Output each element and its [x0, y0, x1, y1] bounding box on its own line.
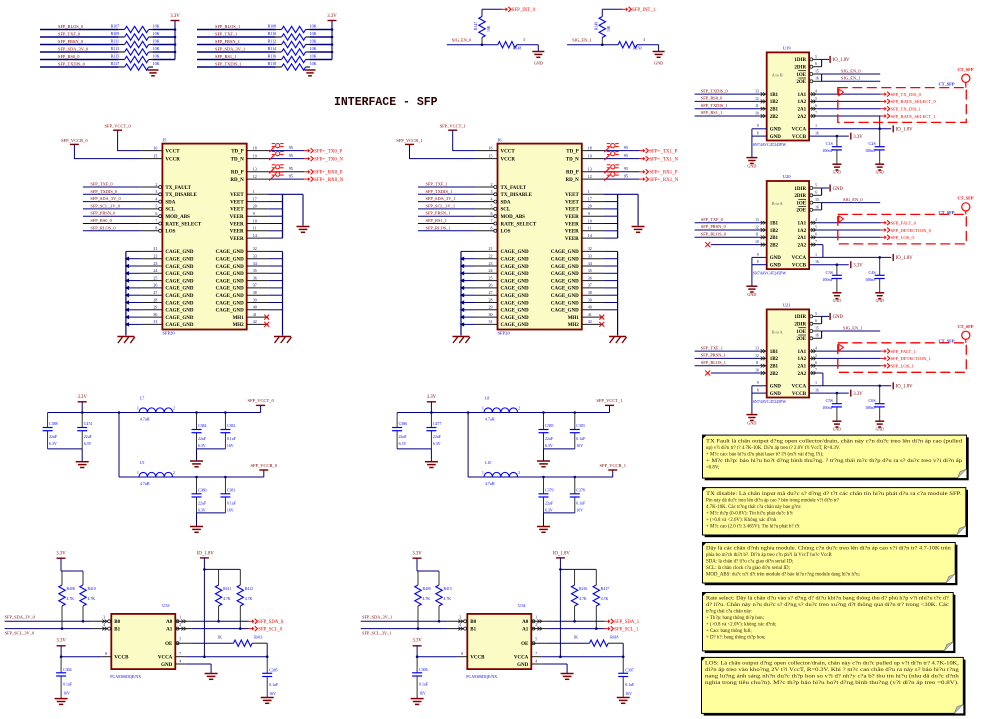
svg-text:6: 6	[815, 104, 817, 108]
svg-text:5: 5	[815, 225, 817, 229]
svg-text:VCCR: VCCR	[501, 157, 516, 162]
svg-text:CAGE_GND: CAGE_GND	[165, 258, 193, 263]
svg-text:1: 1	[137, 407, 139, 411]
svg-text:36: 36	[588, 275, 592, 280]
svg-text:95: 95	[624, 145, 628, 150]
svg-text:CAGE_GND: CAGE_GND	[551, 272, 579, 277]
svg-text:Pin này dã du?c treo lên di?n: Pin này dã du?c treo lên di?n áp cao ? b…	[706, 498, 839, 503]
svg-text:TX_FAULT: TX_FAULT	[165, 186, 191, 191]
svg-text:13: 13	[755, 218, 759, 222]
svg-text:12: 12	[588, 174, 592, 179]
svg-text:10: 10	[755, 111, 759, 115]
svg-text:4.7K-10K. Các tr?ng thái c?a c: 4.7K-10K. Các tr?ng thái c?a chân này ba…	[706, 505, 801, 510]
svg-text:3: 3	[103, 616, 105, 620]
svg-text:29: 29	[153, 305, 157, 310]
svg-text:4.7uH: 4.7uH	[485, 418, 495, 422]
svg-text:5: 5	[179, 638, 181, 642]
svg-text:6: 6	[815, 233, 817, 237]
svg-text:1K: 1K	[573, 636, 578, 640]
svg-text:=0.8V;: =0.8V;	[706, 465, 719, 470]
svg-text:10K: 10K	[153, 39, 160, 44]
svg-text:4: 4	[491, 196, 493, 201]
svg-text:RATE_SELECT: RATE_SELECT	[501, 222, 537, 227]
svg-text:1DIR: 1DIR	[794, 315, 806, 320]
svg-text:TX_FAULT: TX_FAULT	[501, 186, 527, 191]
svg-text:4.7uH: 4.7uH	[140, 482, 150, 486]
svg-text:2: 2	[173, 407, 175, 411]
svg-text:4: 4	[815, 347, 817, 351]
svg-text:VCCA: VCCA	[792, 128, 807, 133]
svg-text:CAGE_GND: CAGE_GND	[165, 294, 193, 299]
svg-text:SDA: SDA	[165, 200, 175, 205]
svg-text:C380: C380	[198, 488, 206, 492]
svg-text:25: 25	[153, 275, 157, 280]
svg-text:TD_P: TD_P	[566, 149, 579, 154]
svg-text:1B2: 1B2	[770, 229, 779, 234]
svg-text:CT_SFP: CT_SFP	[938, 210, 954, 215]
svg-text:SFP_SCL_3V_0: SFP_SCL_3V_0	[90, 203, 120, 208]
svg-text:MH1: MH1	[233, 316, 245, 321]
svg-text:4: 4	[155, 196, 157, 201]
svg-text:SFP_TXF_1: SFP_TXF_1	[426, 182, 448, 187]
svg-text:3: 3	[643, 38, 645, 42]
svg-text:2B2: 2B2	[770, 115, 779, 120]
svg-text:2DIR: 2DIR	[794, 194, 806, 199]
svg-text:SFP_RS0_0: SFP_RS0_0	[701, 96, 723, 101]
svg-text:6.3V: 6.3V	[433, 442, 441, 446]
svg-text:SFP20: SFP20	[498, 331, 511, 336]
svg-text:R112: R112	[268, 39, 277, 44]
svg-text:26: 26	[153, 283, 157, 288]
svg-text:0.1uF: 0.1uF	[625, 683, 635, 687]
svg-text:0.1uF: 0.1uF	[227, 501, 237, 505]
svg-text:1: 1	[179, 616, 181, 620]
svg-text:CAGE_GND: CAGE_GND	[501, 272, 529, 277]
svg-text:SFP_SDA_3V_0: SFP_SDA_3V_0	[5, 615, 36, 620]
svg-text:A1: A1	[166, 627, 173, 632]
svg-text:6.3V: 6.3V	[198, 508, 206, 512]
svg-text:SFP_SDA_3V_1: SFP_SDA_3V_1	[362, 615, 392, 620]
svg-text:CAGE_GND: CAGE_GND	[501, 250, 529, 255]
svg-text:33: 33	[253, 254, 257, 259]
svg-text:VCCA: VCCA	[514, 656, 529, 661]
svg-text:VCCB: VCCB	[114, 656, 129, 661]
svg-text:CAGE_GND: CAGE_GND	[551, 287, 579, 292]
svg-text:5: 5	[815, 183, 817, 187]
svg-text:TX_DISABLE: TX_DISABLE	[501, 193, 533, 198]
svg-text:SFP+_TX1_N: SFP+_TX1_N	[649, 157, 678, 162]
svg-text:6: 6	[815, 191, 817, 195]
svg-text:GND: GND	[833, 315, 844, 320]
svg-text:SDA: SDA	[501, 200, 511, 205]
svg-text:C382: C382	[227, 424, 235, 428]
svg-text:29: 29	[489, 305, 493, 310]
svg-text:C385: C385	[545, 424, 553, 428]
svg-text:SFP+_RX1_N: SFP+_RX1_N	[649, 178, 679, 183]
svg-text:R108: R108	[268, 24, 277, 29]
svg-text:8: 8	[461, 652, 463, 656]
svg-text:Dây là các chân d?nh nghia mod: Dây là các chân d?nh nghia module. Chúng…	[706, 547, 951, 552]
svg-text:10K: 10K	[487, 25, 491, 32]
svg-text:4.7uH: 4.7uH	[485, 482, 495, 486]
svg-text:3.3V: 3.3V	[56, 639, 66, 644]
svg-text:CAGE_GND: CAGE_GND	[501, 258, 529, 263]
svg-text:5: 5	[815, 312, 817, 316]
svg-text:GND: GND	[876, 428, 884, 432]
svg-text:R148: R148	[513, 47, 521, 51]
svg-text:4.7K: 4.7K	[579, 597, 587, 601]
svg-text:10: 10	[588, 218, 592, 223]
svg-text:R417: R417	[601, 587, 609, 591]
svg-text:1B2: 1B2	[770, 357, 779, 362]
svg-text:+ Cao: bang thông full;: + Cao: bang thông full;	[706, 629, 752, 634]
svg-text:3.3V: 3.3V	[77, 395, 87, 400]
svg-text:SFP_TXF_1: SFP_TXF_1	[701, 345, 723, 350]
svg-text:37: 37	[253, 283, 257, 288]
svg-text:7: 7	[815, 240, 817, 244]
svg-text:C386: C386	[399, 422, 407, 426]
svg-text:23: 23	[489, 261, 493, 266]
svg-text:IO_1.8V: IO_1.8V	[896, 128, 913, 133]
svg-text:14: 14	[253, 233, 257, 238]
svg-text:95: 95	[289, 145, 293, 150]
svg-text:U34: U34	[518, 603, 526, 608]
svg-text:R111: R111	[111, 39, 119, 44]
svg-text:CAGE_GND: CAGE_GND	[165, 316, 193, 321]
svg-text:7: 7	[179, 652, 181, 656]
svg-text:SFP_SDA_3V_0: SFP_SDA_3V_0	[58, 47, 89, 52]
svg-text:SFP_LOS_1: SFP_LOS_1	[891, 364, 915, 369]
svg-text:R118: R118	[268, 61, 277, 66]
svg-text:SFP_RS1_1: SFP_RS1_1	[426, 218, 447, 223]
svg-text:95: 95	[624, 166, 628, 171]
svg-text:TX_DISABLE: TX_DISABLE	[165, 193, 197, 198]
svg-text:SIG_EN_1: SIG_EN_1	[572, 38, 592, 43]
svg-text:SIG_EN_0: SIG_EN_0	[843, 197, 863, 202]
svg-text:IO_1.8V: IO_1.8V	[833, 58, 850, 63]
svg-text:SFP_RATE_SELECT_0: SFP_RATE_SELECT_0	[891, 99, 937, 104]
svg-text:3: 3	[523, 38, 525, 42]
svg-text:1DIR: 1DIR	[794, 187, 806, 192]
svg-text:26: 26	[489, 283, 493, 288]
svg-text:GND: GND	[833, 299, 841, 303]
svg-text:B1: B1	[114, 627, 120, 632]
svg-text:3: 3	[459, 616, 461, 620]
svg-text:22: 22	[489, 254, 493, 259]
svg-text:38: 38	[588, 290, 592, 295]
svg-text:CAGE_GND: CAGE_GND	[501, 316, 529, 321]
svg-text:2: 2	[491, 182, 493, 187]
svg-text:1: 1	[815, 253, 817, 257]
svg-text:SFP+_RX0_N: SFP+_RX0_N	[314, 178, 344, 183]
svg-text:GND: GND	[747, 292, 756, 297]
svg-text:up) v?i di?n tr? t? 4.7K-10K.: up) v?i di?n tr? t? 4.7K-10K. Di?n áp tr…	[706, 446, 840, 451]
svg-text:CT_SFP: CT_SFP	[957, 324, 973, 329]
svg-text:5: 5	[535, 638, 537, 642]
svg-text:CT_SFP: CT_SFP	[938, 338, 954, 343]
svg-text:16V: 16V	[625, 692, 632, 696]
svg-text:3.3V: 3.3V	[412, 639, 422, 644]
svg-text:SFP_TXDIS_0: SFP_TXDIS_0	[58, 62, 86, 67]
svg-text:Rate select: Dây là chân d?u v: Rate select: Dây là chân d?u vào s? d?ng…	[706, 597, 949, 602]
svg-text:36: 36	[253, 275, 257, 280]
svg-text:+ M?c cao (2.0 t?i 3.465V): Tí: + M?c cao (2.0 t?i 3.465V): Tín hi?u phá…	[706, 524, 800, 529]
svg-text:GND: GND	[833, 171, 841, 175]
svg-text:OE: OE	[521, 642, 529, 647]
svg-text:4.7uH: 4.7uH	[140, 418, 150, 422]
svg-text:12: 12	[755, 225, 759, 229]
svg-text:6.3V: 6.3V	[84, 442, 92, 446]
svg-text:SFP_RS0_0: SFP_RS0_0	[90, 218, 112, 223]
svg-text:SFP_INT_1: SFP_INT_1	[632, 8, 656, 13]
svg-text:SFP_TXF_0: SFP_TXF_0	[701, 217, 724, 222]
svg-text:SFP_PRSN_0: SFP_PRSN_0	[701, 224, 727, 229]
svg-text:GND: GND	[770, 385, 782, 390]
svg-text:C378: C378	[576, 488, 584, 492]
svg-text:1: 1	[137, 471, 139, 475]
svg-text:VCCA: VCCA	[158, 656, 173, 661]
svg-text:8: 8	[757, 132, 759, 136]
svg-text:CAGE_GND: CAGE_GND	[551, 258, 579, 263]
svg-text:J5: J5	[162, 137, 167, 142]
svg-text:7: 7	[155, 218, 157, 223]
svg-text:0.1uF: 0.1uF	[269, 683, 279, 687]
svg-text:5: 5	[815, 55, 817, 59]
svg-text:VEET: VEET	[230, 200, 244, 205]
svg-text:6.3V: 6.3V	[198, 444, 206, 448]
svg-text:6.3V: 6.3V	[49, 442, 57, 446]
svg-text:42: 42	[253, 319, 257, 324]
svg-text:6: 6	[155, 211, 157, 216]
svg-text:16V: 16V	[576, 444, 583, 448]
svg-text:CT_SFP: CT_SFP	[938, 81, 954, 86]
svg-text:31: 31	[153, 319, 157, 324]
svg-text:30: 30	[153, 312, 157, 317]
svg-text:20: 20	[253, 204, 257, 209]
svg-text:32: 32	[588, 246, 592, 251]
svg-text:SFP_DETECTION_1: SFP_DETECTION_1	[891, 356, 932, 361]
svg-text:10: 10	[755, 240, 759, 244]
svg-text:42: 42	[588, 319, 592, 324]
svg-text:2A2: 2A2	[797, 372, 806, 377]
svg-text:CAGE_GND: CAGE_GND	[501, 323, 529, 328]
svg-text:1: 1	[535, 616, 537, 620]
svg-text:L8: L8	[485, 397, 489, 401]
svg-text:13: 13	[253, 167, 257, 172]
svg-text:0.1uF: 0.1uF	[576, 437, 586, 441]
svg-text:R107: R107	[111, 24, 120, 29]
svg-text:nghia trong tiêu chu?n). M?c t: nghia trong tiêu chu?n). M?c th?p báo hi…	[705, 681, 959, 686]
svg-text:SFP_TXF_1: SFP_TXF_1	[215, 32, 237, 37]
svg-text:SCL: là chân clock c?a giao di: SCL: là chân clock c?a giao di?n serial …	[706, 566, 790, 571]
svg-text:2A1: 2A1	[797, 365, 806, 370]
svg-text:18: 18	[253, 145, 257, 150]
svg-text:R109: R109	[111, 31, 120, 36]
svg-text:SFP+_TX0_N: SFP+_TX0_N	[314, 157, 343, 162]
svg-text:SDA: là chân d? li?u c?a giao: SDA: là chân d? li?u c?a giao di?n seria…	[706, 560, 793, 565]
svg-text:PCA9306DQE/NX: PCA9306DQE/NX	[466, 674, 497, 679]
svg-text:GND: GND	[770, 135, 782, 140]
svg-text:SFP+_RX1_P: SFP+_RX1_P	[649, 171, 678, 176]
svg-text:CAGE_GND: CAGE_GND	[216, 250, 244, 255]
svg-text:SFP20: SFP20	[162, 331, 175, 336]
svg-text:1: 1	[253, 189, 255, 194]
svg-text:2B1: 2B1	[770, 236, 779, 241]
svg-text:C304: C304	[63, 668, 71, 672]
svg-text:SFP_FALT_1: SFP_FALT_1	[891, 349, 917, 354]
svg-text:9: 9	[588, 211, 590, 216]
svg-text:4.7K: 4.7K	[444, 597, 452, 601]
svg-text:9: 9	[757, 381, 759, 385]
svg-text:SFP_VCCR_1: SFP_VCCR_1	[396, 138, 423, 143]
svg-text:22uF: 22uF	[198, 437, 207, 441]
svg-text:INTERFACE - SFP: INTERFACE - SFP	[334, 96, 438, 109]
svg-text:2OE: 2OE	[796, 80, 806, 85]
svg-text:VCCT: VCCT	[501, 149, 516, 154]
svg-text:24: 24	[489, 268, 493, 273]
svg-text:U19: U19	[783, 46, 792, 51]
svg-text:1A2: 1A2	[797, 100, 806, 105]
svg-text:TD_N: TD_N	[566, 157, 579, 162]
svg-text:GND: GND	[833, 187, 844, 192]
svg-text:14: 14	[588, 233, 592, 238]
svg-text:0.1uF: 0.1uF	[63, 683, 73, 687]
svg-text:16: 16	[815, 260, 819, 264]
svg-text:IO_1.8V: IO_1.8V	[896, 385, 913, 390]
svg-text:SIG_EN_0: SIG_EN_0	[452, 38, 472, 43]
svg-text:J6: J6	[498, 137, 503, 142]
svg-text:SFP_RATE_SELECT_1: SFP_RATE_SELECT_1	[891, 114, 937, 119]
svg-text:IO_1.8V: IO_1.8V	[553, 552, 570, 557]
svg-text:13: 13	[755, 347, 759, 351]
svg-text:VEER: VEER	[230, 222, 244, 227]
svg-text:R149: R149	[595, 22, 599, 30]
svg-text:2OE: 2OE	[796, 337, 806, 342]
svg-text:3.3V: 3.3V	[427, 395, 437, 400]
svg-text:2: 2	[179, 623, 181, 627]
svg-text:VEER: VEER	[565, 215, 579, 220]
svg-text:CAGE_GND: CAGE_GND	[165, 272, 193, 277]
svg-text:10: 10	[755, 368, 759, 372]
svg-text:SFP_SDA_3V_1: SFP_SDA_3V_1	[215, 47, 245, 52]
svg-text:R411: R411	[223, 587, 231, 591]
svg-text:SIG_EN_1: SIG_EN_1	[841, 76, 861, 81]
svg-text:TD_P: TD_P	[231, 149, 244, 154]
svg-text:SFP_SDA_0: SFP_SDA_0	[258, 620, 283, 625]
svg-text:1B1: 1B1	[770, 350, 779, 355]
svg-text:MOD_ABS: MOD_ABS	[501, 215, 526, 220]
svg-text:3: 3	[491, 189, 493, 194]
svg-text:4.7K: 4.7K	[423, 597, 431, 601]
svg-text:40: 40	[588, 305, 592, 310]
svg-text:95: 95	[289, 166, 293, 171]
svg-text:28: 28	[153, 297, 157, 302]
svg-text:0.1uF: 0.1uF	[419, 683, 429, 687]
svg-text:CAGE_GND: CAGE_GND	[551, 279, 579, 284]
svg-text:B0: B0	[470, 620, 476, 625]
svg-text:SFP_SCL_3V_0: SFP_SCL_3V_0	[5, 630, 35, 635]
svg-text:A1: A1	[522, 627, 529, 632]
svg-text:SFP_VCCT_1: SFP_VCCT_1	[596, 398, 622, 403]
svg-text:CAGE_GND: CAGE_GND	[165, 279, 193, 284]
svg-text:12: 12	[755, 97, 759, 101]
svg-text:4: 4	[535, 659, 537, 663]
svg-text:VEER: VEER	[565, 222, 579, 227]
svg-text:CAGE_GND: CAGE_GND	[165, 323, 193, 328]
svg-text:3.3V: 3.3V	[853, 264, 863, 269]
svg-text:35: 35	[588, 268, 592, 273]
svg-text:MH2: MH2	[568, 323, 580, 328]
svg-text:SFP_TXDIS_1: SFP_TXDIS_1	[215, 62, 242, 67]
svg-text:GND: GND	[770, 128, 782, 133]
svg-text:R147: R147	[474, 22, 478, 30]
svg-text:RATE_SELECT: RATE_SELECT	[165, 222, 201, 227]
svg-text:1A2: 1A2	[797, 229, 806, 234]
svg-text:SFP+_TX1_P: SFP+_TX1_P	[649, 149, 677, 154]
svg-text:4: 4	[179, 659, 181, 663]
svg-text:SFP_RLOS_1: SFP_RLOS_1	[701, 360, 726, 365]
svg-text:SFP_TX_DIS_0: SFP_TX_DIS_0	[891, 92, 922, 97]
svg-text:1A1: 1A1	[797, 93, 806, 98]
svg-text:+ M?c th?p (0-0.8V): Tín hi?u: + M?c th?p (0-0.8V): Tín hi?u phát du?c …	[706, 511, 793, 516]
svg-text:IO_1.8V: IO_1.8V	[197, 552, 214, 557]
svg-text:5: 5	[815, 354, 817, 358]
svg-text:16: 16	[815, 334, 819, 338]
svg-text:SFP_VCCR_0: SFP_VCCR_0	[251, 463, 278, 468]
svg-text:SFP_RLOS_1: SFP_RLOS_1	[215, 24, 240, 29]
svg-text:CT_SFP: CT_SFP	[957, 67, 973, 72]
svg-text:VCCB: VCCB	[792, 264, 807, 269]
svg-text:1OE: 1OE	[796, 73, 806, 78]
svg-text:CAGE_GND: CAGE_GND	[216, 272, 244, 277]
svg-text:CAGE_GND: CAGE_GND	[165, 301, 193, 306]
svg-text:41: 41	[253, 312, 257, 317]
svg-text:SIG_EN_0: SIG_EN_0	[841, 68, 861, 73]
svg-text:10K: 10K	[153, 61, 160, 66]
svg-text:R413: R413	[254, 636, 262, 640]
svg-text:4.7K: 4.7K	[245, 597, 253, 601]
svg-text:15: 15	[153, 153, 157, 158]
svg-text:16: 16	[153, 145, 157, 150]
svg-text:R415: R415	[444, 587, 452, 591]
svg-text:SFP_VCCT_0: SFP_VCCT_0	[247, 398, 274, 403]
svg-text:13: 13	[588, 167, 592, 172]
svg-text:10K: 10K	[310, 31, 317, 36]
svg-text:R410: R410	[88, 587, 96, 591]
svg-text:22: 22	[153, 254, 157, 259]
svg-text:16: 16	[815, 389, 819, 393]
svg-text:SFP_TXDIS_1: SFP_TXDIS_1	[701, 103, 728, 108]
svg-text:CAGE_GND: CAGE_GND	[551, 301, 579, 306]
svg-text:B to A: B to A	[772, 201, 783, 206]
svg-text:SFP_PRSN_0: SFP_PRSN_0	[58, 39, 84, 44]
svg-text:SFP_INT_0: SFP_INT_0	[512, 8, 536, 13]
svg-text:5: 5	[155, 204, 157, 209]
svg-text:TX disable: Là chân input mà d: TX disable: Là chân input mà du?c s? d?n…	[706, 492, 961, 497]
svg-text:SFP_PRSN_1: SFP_PRSN_1	[701, 353, 726, 358]
svg-text:SN74AVC4T245PW: SN74AVC4T245PW	[753, 399, 787, 404]
svg-text:CAGE_GND: CAGE_GND	[216, 309, 244, 314]
svg-text:LOS: LOS	[501, 230, 511, 235]
svg-text:21: 21	[153, 246, 157, 251]
svg-text:0.1uF: 0.1uF	[576, 501, 586, 505]
svg-text:2: 2	[518, 407, 520, 411]
svg-text:CAGE_GND: CAGE_GND	[501, 265, 529, 270]
svg-text:A to B: A to B	[772, 73, 783, 78]
svg-text:34: 34	[253, 261, 257, 266]
svg-text:3.3V: 3.3V	[56, 552, 66, 557]
svg-text:SCL: SCL	[165, 208, 175, 213]
